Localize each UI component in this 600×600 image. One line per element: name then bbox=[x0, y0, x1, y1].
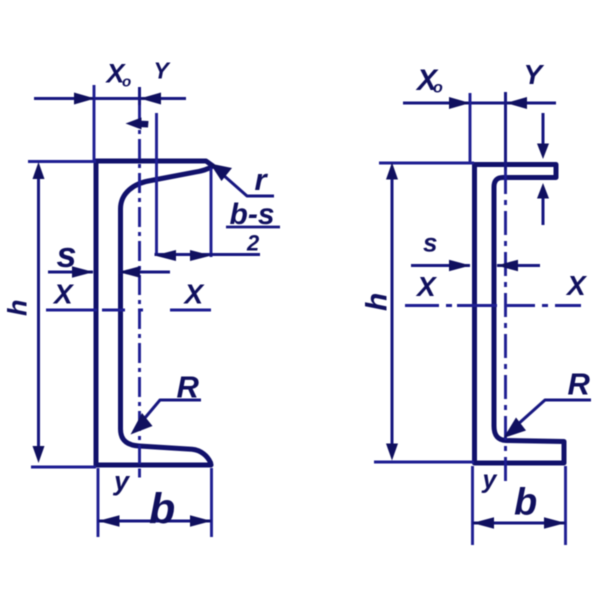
svg-text:y: y bbox=[481, 466, 498, 494]
svg-text:s: s bbox=[423, 228, 437, 258]
arrow X0 right (points left at x=140) bbox=[140, 93, 161, 105]
centroid Y axis (left, dash-dot) bbox=[138, 87, 141, 105]
web-face extension tick for X0 (right) bbox=[469, 93, 472, 163]
X axis (right figure, dash-dot) bbox=[405, 304, 581, 307]
b dimension (right figure) bbox=[471, 466, 474, 545]
s dimension (left figure) bbox=[48, 271, 93, 274]
svg-text:R: R bbox=[568, 367, 591, 402]
s dimension (right figure) bbox=[411, 264, 470, 267]
svg-text:y: y bbox=[112, 466, 131, 496]
svg-text:R: R bbox=[177, 370, 200, 405]
svg-text:o: o bbox=[433, 80, 443, 97]
svg-text:b: b bbox=[514, 482, 537, 524]
svg-text:o: o bbox=[122, 74, 131, 91]
arrow X0 right (right fig) bbox=[506, 97, 527, 109]
centroid Y axis (right, dash-dot) bbox=[504, 92, 507, 170]
R leader (left figure) bbox=[134, 400, 201, 431]
svg-text:Y: Y bbox=[154, 58, 172, 84]
top extension line (h, left) bbox=[28, 160, 96, 163]
svg-text:h: h bbox=[3, 300, 33, 317]
r leader (left figure) bbox=[213, 166, 274, 196]
bottom extension line (h, right) bbox=[374, 461, 474, 464]
svg-text:b: b bbox=[149, 485, 175, 533]
left channel profile outline bbox=[96, 161, 213, 465]
svg-text:h: h bbox=[361, 293, 394, 311]
R leader (right figure) bbox=[507, 400, 591, 434]
svg-text:Y: Y bbox=[524, 59, 545, 90]
t dimension (right figure) bbox=[542, 113, 545, 144]
right channel profile outline bbox=[475, 165, 565, 464]
svg-text:X: X bbox=[52, 279, 75, 310]
X0 dimension line (left) bbox=[34, 97, 186, 100]
b dimension (left figure) bbox=[97, 468, 100, 537]
svg-text:2: 2 bbox=[246, 231, 260, 256]
t extension line (left figure) bbox=[155, 113, 158, 256]
web-face extension tick for X0 (left) bbox=[93, 85, 96, 160]
svg-text:r: r bbox=[255, 162, 269, 197]
arrow X0 left (points right at x=94) bbox=[74, 93, 95, 105]
top extension line (h, right) bbox=[379, 162, 474, 165]
svg-text:X: X bbox=[565, 270, 588, 301]
dimension h (left figure) bbox=[37, 168, 40, 457]
dimension h (right figure) bbox=[391, 168, 394, 455]
svg-text:X: X bbox=[183, 279, 206, 310]
X axis (left figure, dash-dot) bbox=[46, 309, 211, 312]
svg-text:s: s bbox=[57, 234, 77, 275]
small t arrow (left figure) bbox=[126, 118, 149, 130]
X0 dimension line (right) bbox=[403, 102, 556, 105]
(b-s)/2 dimension (left figure) bbox=[210, 168, 213, 257]
arrow X0 left (right fig) bbox=[449, 97, 470, 109]
svg-text:X: X bbox=[415, 271, 438, 302]
bottom extension line (h, left) bbox=[31, 466, 96, 469]
